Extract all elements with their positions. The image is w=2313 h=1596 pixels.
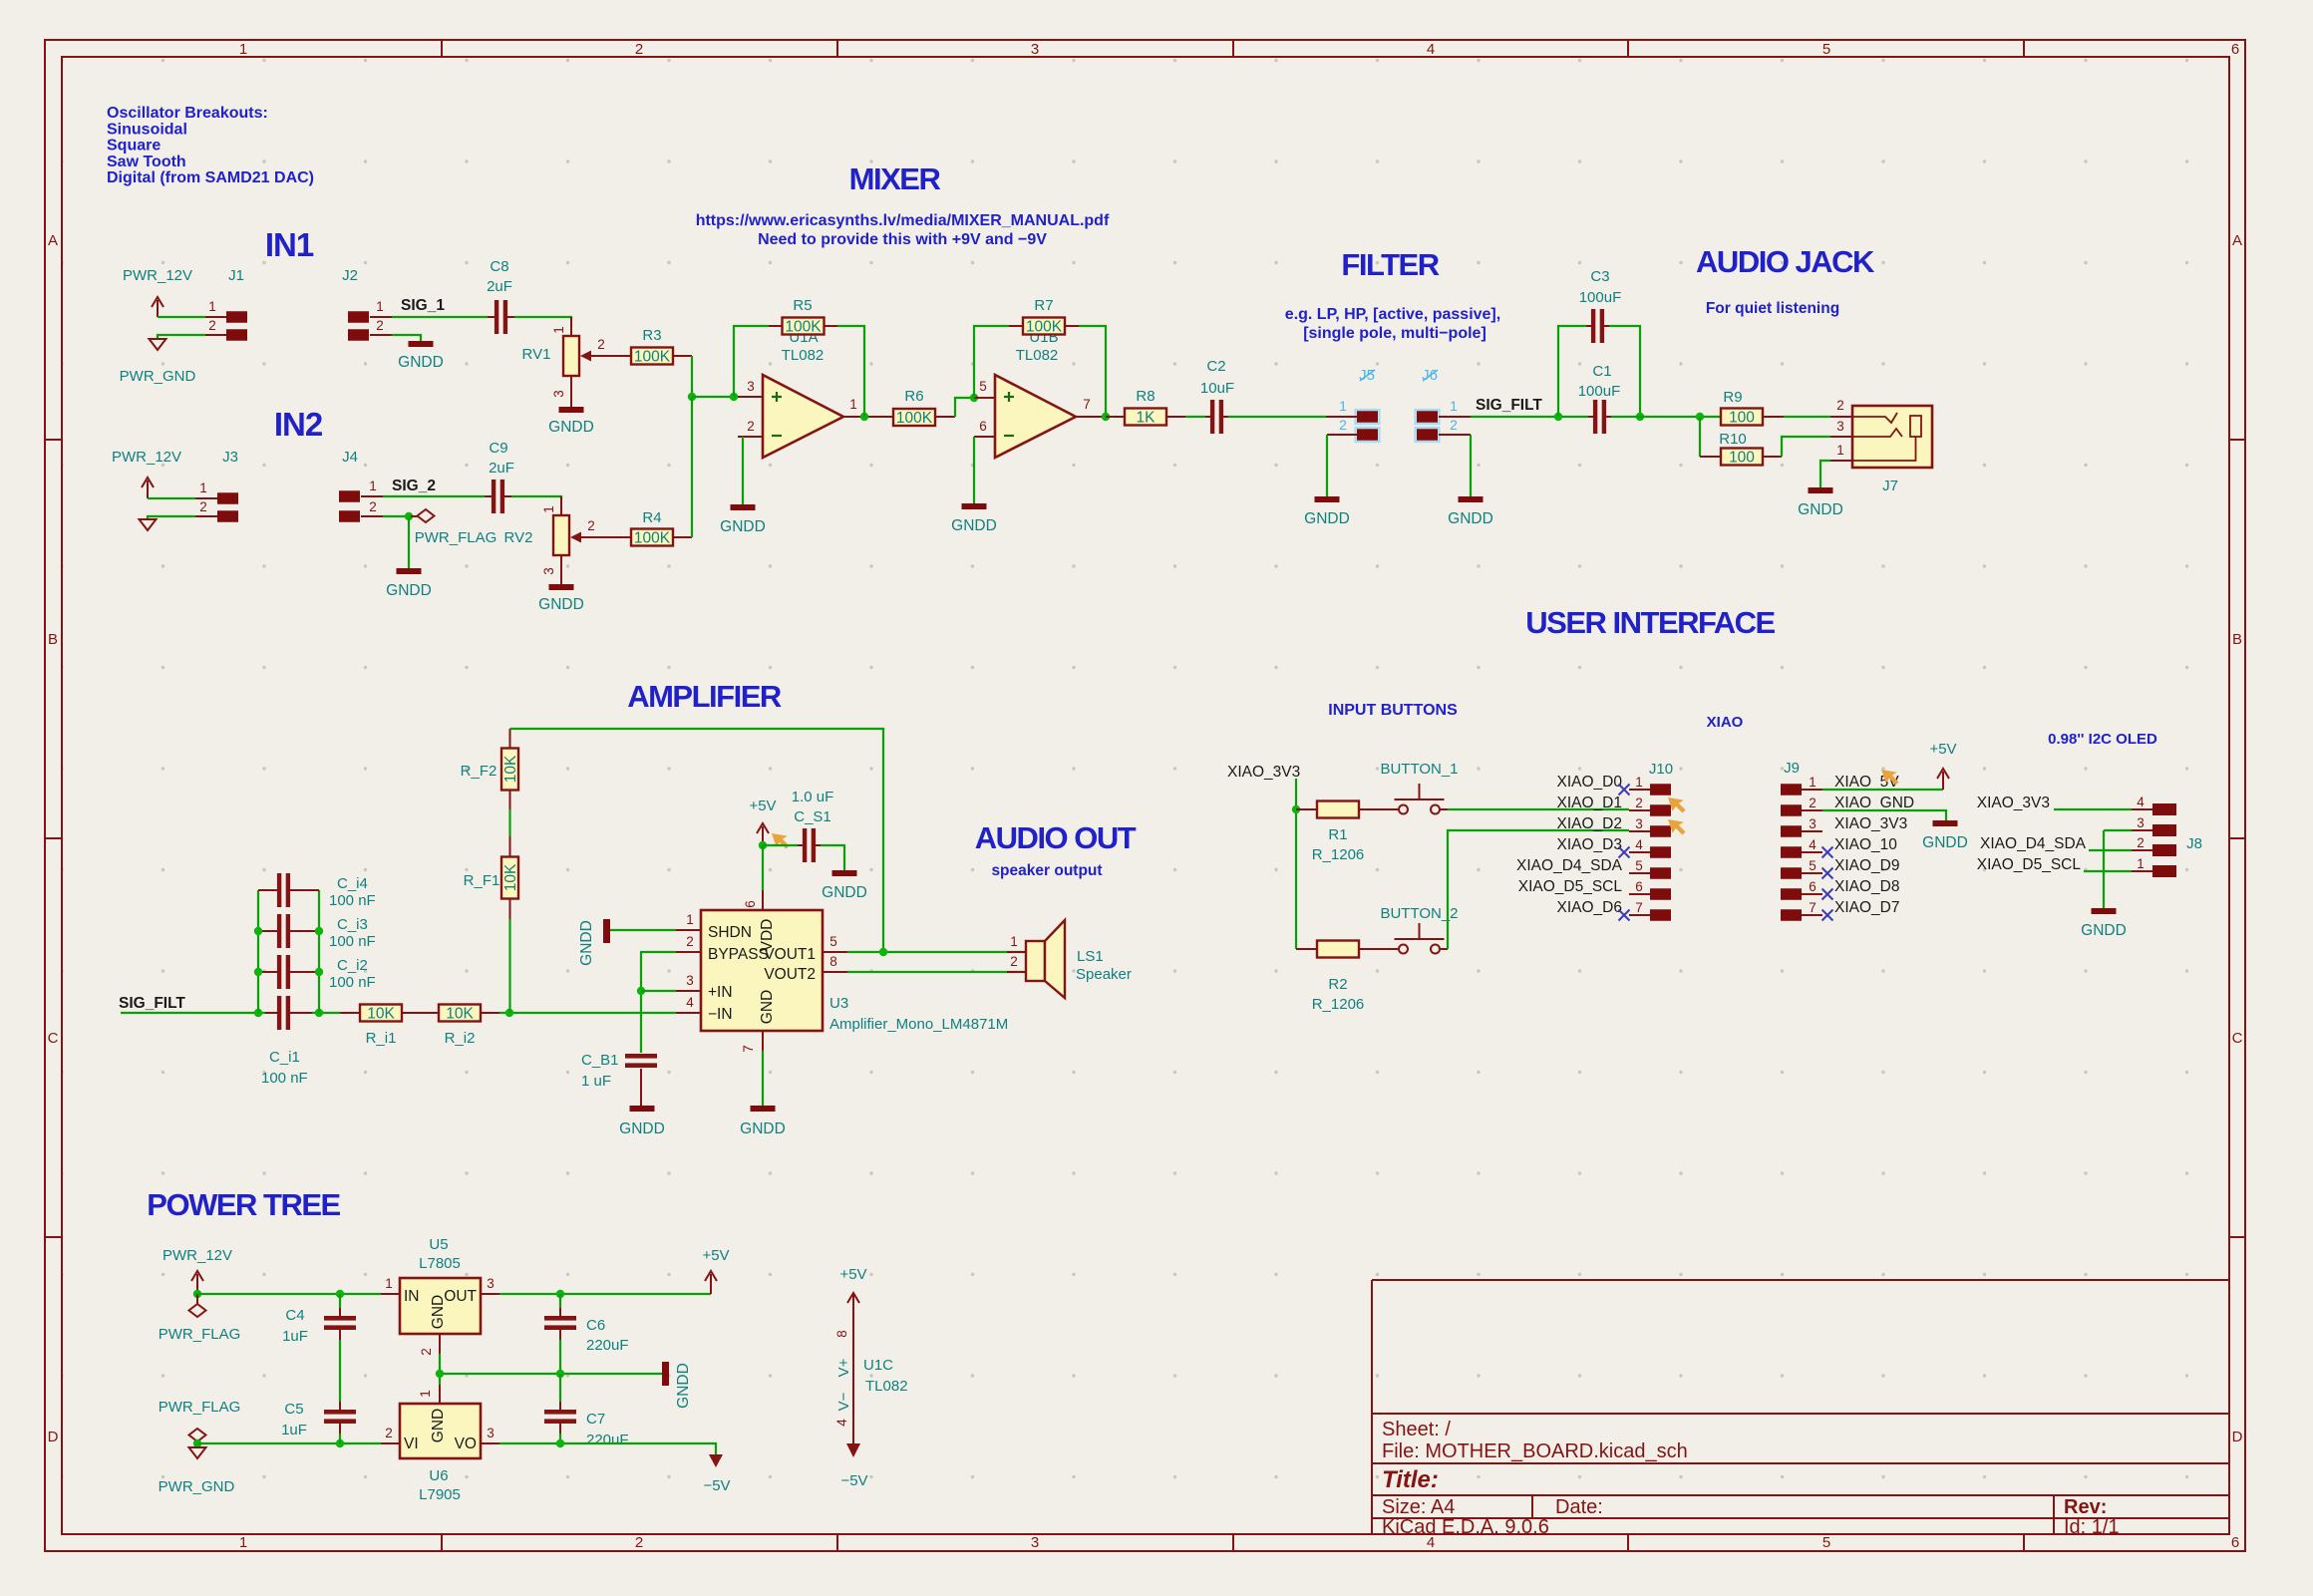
svg-text:100K: 100K [634, 530, 671, 547]
svg-text:1: 1 [385, 1276, 393, 1291]
svg-text:+5V: +5V [749, 798, 776, 814]
svg-text:XIAO_3V3: XIAO_3V3 [1227, 764, 1300, 781]
pin J9-1 XIAO_5V [1781, 784, 1802, 796]
wire J4 pin1 to C9 [383, 495, 485, 497]
wire U5 out to +5V [499, 1293, 711, 1295]
ground GNDD (J6) [1459, 496, 1484, 502]
svg-text:5: 5 [1822, 41, 1830, 58]
wire J3 pin2 to PWR_GND [148, 516, 195, 519]
no-connect X J9 [1822, 910, 1833, 921]
svg-text:2: 2 [369, 499, 377, 514]
svg-text:C: C [2232, 1030, 2243, 1047]
svg-text:2: 2 [1809, 796, 1817, 810]
wire VOUT2 to speaker [847, 971, 1026, 973]
power flag PWR_FLAG (IN2) [411, 515, 418, 517]
resistor R_i2 10K [439, 1005, 481, 1022]
svg-text:R_1206: R_1206 [1312, 996, 1365, 1013]
wire R6 to U1B + [955, 398, 974, 417]
svg-text:2: 2 [1836, 398, 1844, 413]
svg-text:Sheet: /: Sheet: / [1382, 1419, 1451, 1440]
svg-text:XIAO_D0: XIAO_D0 [1557, 774, 1623, 791]
svg-text:D: D [48, 1429, 59, 1445]
svg-text:100K: 100K [896, 410, 933, 427]
wire BUTTON_2 to J10 pin3 [1448, 830, 1629, 949]
svg-text:5: 5 [829, 934, 837, 949]
svg-text:GNDD: GNDD [386, 582, 432, 599]
svg-text:C_S1: C_S1 [794, 808, 831, 825]
svg-text:100uF: 100uF [1578, 383, 1621, 400]
svg-text:PWR_12V: PWR_12V [123, 267, 192, 284]
svg-text:J10: J10 [1649, 761, 1673, 778]
ground GNDD (SHDN) rotated [603, 919, 610, 943]
no-connect X J10-4 [1619, 847, 1630, 858]
svg-text:7: 7 [1809, 900, 1817, 915]
power -5V (U6) [709, 1454, 723, 1467]
svg-text:C6: C6 [586, 1317, 605, 1334]
svg-text:Date:: Date: [1555, 1496, 1603, 1518]
pin J10-6 XIAO_D5_SCL [1650, 888, 1671, 900]
svg-text:XIAO_D6: XIAO_D6 [1557, 899, 1622, 916]
svg-text:5: 5 [1635, 858, 1643, 873]
wire U3 GND to GNDD [762, 1051, 764, 1106]
svg-text:XIAO_D4_SDA: XIAO_D4_SDA [1516, 857, 1623, 874]
svg-text:100: 100 [1729, 450, 1755, 467]
svg-text:R_i2: R_i2 [445, 1030, 476, 1047]
svg-text:GNDD: GNDD [1922, 834, 1968, 851]
wire J4 pin2 to GNDD [383, 515, 409, 517]
svg-text:R7: R7 [1034, 297, 1053, 314]
svg-text:KiCad E.D.A. 9.0.6: KiCad E.D.A. 9.0.6 [1382, 1516, 1549, 1538]
power +5V (U5) [710, 1274, 712, 1294]
svg-text:2: 2 [587, 518, 595, 533]
svg-text:GNDD: GNDD [538, 596, 584, 613]
svg-text:10K: 10K [367, 1006, 395, 1023]
svg-text:GNDD: GNDD [1798, 501, 1843, 518]
svg-text:5: 5 [1822, 1534, 1830, 1551]
svg-text:PWR_FLAG: PWR_FLAG [159, 1399, 241, 1416]
svg-text:FILTER: FILTER [1341, 247, 1439, 282]
svg-text:1: 1 [1339, 398, 1347, 414]
svg-text:SIG_FILT: SIG_FILT [119, 995, 185, 1012]
svg-text:speaker output: speaker output [991, 862, 1102, 879]
svg-text:−IN: −IN [708, 1006, 733, 1023]
svg-text:C: C [48, 1030, 59, 1047]
wire input caps to R_i1 [312, 1012, 340, 1014]
ground GNDD (U1A) [731, 504, 756, 510]
ground GNDD (C_B1) [630, 1106, 655, 1112]
ground GNDD (J4) [397, 568, 422, 574]
svg-text:100 nF: 100 nF [261, 1070, 308, 1087]
ground GNDD (J8) [2092, 908, 2117, 914]
svg-text:TL082: TL082 [1016, 347, 1059, 364]
svg-text:1: 1 [1450, 398, 1458, 414]
svg-text:C_i1: C_i1 [269, 1049, 300, 1066]
svg-text:BUTTON_2: BUTTON_2 [1380, 905, 1458, 922]
svg-text:C_i3: C_i3 [337, 916, 368, 933]
pin J9-4 XIAO_10 [1781, 846, 1802, 858]
svg-text:7: 7 [1635, 900, 1643, 915]
svg-text:C8: C8 [490, 258, 508, 275]
svg-text:1: 1 [208, 299, 216, 314]
svg-text:PWR_GND: PWR_GND [159, 1478, 235, 1495]
svg-text:3: 3 [487, 1276, 495, 1291]
svg-text:VDD: VDD [759, 919, 776, 952]
svg-text:1: 1 [239, 1534, 247, 1551]
power +5V (J9) [1942, 772, 1944, 790]
svg-text:220uF: 220uF [586, 1432, 629, 1448]
svg-text:RV2: RV2 [504, 529, 533, 546]
resistor R_i1 10K [360, 1005, 402, 1022]
svg-text:USER INTERFACE: USER INTERFACE [1525, 605, 1775, 640]
resistor R2 R_1206 [1296, 948, 1317, 950]
svg-text:For quiet listening: For quiet listening [1706, 300, 1839, 317]
svg-text:GNDD: GNDD [822, 884, 867, 901]
pin J9-5 XIAO_D9 [1781, 867, 1802, 879]
wire R9 to J7 pin2 [1784, 416, 1830, 418]
svg-text:4: 4 [834, 1419, 849, 1427]
pin J8-1 [2152, 865, 2176, 877]
svg-text:2: 2 [376, 318, 384, 333]
wire U1B feedback left [974, 326, 1009, 398]
svg-text:1: 1 [2137, 856, 2145, 871]
svg-text:10K: 10K [446, 1006, 474, 1023]
svg-text:1: 1 [376, 299, 384, 314]
wire C4 to C5 [339, 1340, 341, 1402]
svg-text:R3: R3 [642, 327, 661, 344]
svg-text:XIAO_D3: XIAO_D3 [1557, 836, 1622, 853]
svg-text:GNDD: GNDD [951, 517, 997, 534]
svg-text:GNDD: GNDD [548, 419, 594, 436]
svg-text:5: 5 [979, 379, 987, 394]
svg-text:4: 4 [1635, 837, 1643, 852]
svg-text:Title:: Title: [1382, 1466, 1439, 1493]
cursor artifact orange [772, 833, 790, 849]
pin J8-4 [2152, 803, 2176, 815]
svg-text:1uF: 1uF [282, 1328, 308, 1345]
svg-text:2uF: 2uF [487, 278, 512, 295]
svg-text:2: 2 [1450, 417, 1458, 433]
wire summing node to U1A + [692, 396, 738, 398]
svg-text:7: 7 [1083, 397, 1091, 412]
switch BUTTON_2 [1399, 945, 1408, 954]
svg-text:PWR_FLAG: PWR_FLAG [415, 529, 497, 546]
svg-text:+5V: +5V [702, 1247, 729, 1264]
svg-text:Oscillator Breakouts:: Oscillator Breakouts: [107, 105, 268, 122]
svg-text:GNDD: GNDD [578, 920, 595, 966]
wire J2 pin2 to GNDD [392, 335, 421, 341]
svg-text:8: 8 [829, 954, 837, 969]
svg-text:1: 1 [1809, 775, 1817, 790]
svg-text:3: 3 [1031, 1534, 1039, 1551]
svg-text:VO: VO [455, 1436, 477, 1452]
svg-text:R2: R2 [1328, 976, 1347, 993]
wire R3 to summing node [691, 356, 693, 397]
svg-text:C4: C4 [285, 1307, 304, 1324]
svg-text:1: 1 [1010, 934, 1018, 949]
wire GND rail [197, 1442, 381, 1444]
wire U1A output [843, 416, 873, 418]
wire U1B output [1076, 416, 1106, 418]
svg-text:XIAO_3V3: XIAO_3V3 [1834, 815, 1907, 832]
power PWR_GND (IN2) [140, 519, 157, 530]
wire J6 pin2 to GNDD [1470, 435, 1472, 496]
svg-text:GNDD: GNDD [2081, 922, 2127, 939]
svg-text:A: A [48, 232, 58, 249]
wire J8-3 to GNDD [2104, 829, 2132, 831]
wire R4 to summing node [691, 397, 693, 537]
svg-text:1.0 uF: 1.0 uF [792, 789, 834, 805]
svg-text:IN: IN [404, 1288, 420, 1305]
svg-text:e.g. LP, HP, [active, passive]: e.g. LP, HP, [active, passive], [1285, 306, 1500, 323]
svg-text:R10: R10 [1719, 431, 1747, 448]
wire R10 to J7 pin3 [1782, 437, 1830, 457]
svg-text:GNDD: GNDD [675, 1363, 692, 1409]
pin U3-7 GND [762, 1031, 764, 1051]
pin J10-2 XIAO_D1 [1650, 804, 1671, 816]
svg-text:10K: 10K [502, 755, 519, 783]
svg-text:XIAO_D2: XIAO_D2 [1557, 815, 1622, 832]
svg-text:XIAO_D5_SCL: XIAO_D5_SCL [1518, 878, 1623, 895]
svg-text:AMPLIFIER: AMPLIFIER [627, 679, 782, 714]
wire J5 pin2 to GNDD [1326, 435, 1328, 496]
ground GNDD (C_S1) [832, 870, 857, 876]
svg-text:+IN: +IN [708, 984, 733, 1001]
svg-text:J8: J8 [2186, 835, 2202, 852]
svg-text:XIAO_D1: XIAO_D1 [1557, 795, 1622, 811]
svg-text:TL082: TL082 [782, 347, 825, 364]
svg-text:V+: V+ [835, 1358, 852, 1377]
power flag PWR_FLAG (12V) [196, 1294, 198, 1304]
ground GNDD (J9) [1933, 820, 1958, 826]
pin J10-5 XIAO_D4_SDA [1650, 867, 1671, 879]
wire U1B feedback right [1079, 326, 1106, 417]
svg-text:2: 2 [385, 1426, 393, 1440]
svg-text:B: B [48, 631, 58, 648]
ground GNDD (J7) [1809, 487, 1833, 493]
svg-text:XIAO_D7: XIAO_D7 [1834, 899, 1899, 916]
wire mid GND rail [440, 1373, 662, 1375]
svg-text:6: 6 [1635, 879, 1643, 894]
wire BYPASS to C_B1 [641, 952, 676, 1053]
svg-text:6: 6 [2231, 41, 2239, 58]
svg-text:2: 2 [199, 499, 207, 514]
svg-text:1: 1 [849, 397, 857, 412]
pin J10-1 XIAO_D0 [1650, 784, 1671, 796]
wire C8 to RV1 pin1 [514, 317, 571, 320]
svg-text:J7: J7 [1882, 478, 1898, 494]
svg-text:1: 1 [418, 1390, 433, 1398]
wire VOUT1 to speaker [847, 951, 1026, 953]
svg-text:R4: R4 [642, 509, 661, 526]
svg-text:3: 3 [686, 973, 694, 988]
svg-text:6: 6 [979, 419, 987, 434]
svg-text:1: 1 [1836, 443, 1844, 458]
wire J9 pin2 to GNDD [1822, 810, 1946, 820]
svg-text:SIG_FILT: SIG_FILT [1476, 397, 1542, 414]
svg-text:10uF: 10uF [1200, 380, 1234, 397]
svg-text:1: 1 [686, 912, 694, 927]
svg-text:GND: GND [430, 1409, 447, 1442]
pin U3-2 BYPASS [676, 951, 701, 953]
svg-text:Id: 1/1: Id: 1/1 [2064, 1516, 2120, 1538]
wire J1 pin2 to PWR_GND [158, 335, 205, 339]
svg-text:100K: 100K [785, 319, 822, 336]
pin J10-3 XIAO_D2 [1650, 825, 1671, 837]
node J4 pin2 junction [405, 512, 413, 520]
svg-text:AUDIO JACK: AUDIO JACK [1696, 244, 1875, 279]
svg-text:GNDD: GNDD [720, 518, 766, 535]
wire U1B pin6 to GNDD [973, 437, 975, 503]
switch BUTTON_1 [1399, 805, 1408, 814]
svg-text:C3: C3 [1590, 268, 1609, 285]
svg-text:10K: 10K [502, 863, 519, 891]
cursor artifact orange (J10 pads) [1668, 798, 1686, 813]
svg-text:2: 2 [208, 318, 216, 333]
svg-text:B: B [2232, 631, 2242, 648]
svg-text:XIAO_GND: XIAO_GND [1834, 795, 1914, 811]
svg-text:R_i1: R_i1 [366, 1030, 397, 1047]
svg-text:Rev:: Rev: [2064, 1496, 2107, 1518]
svg-text:1uF: 1uF [281, 1422, 307, 1438]
no-connect X J9 [1822, 889, 1833, 900]
svg-text:https://www.ericasynths.lv/med: https://www.ericasynths.lv/media/MIXER_M… [696, 212, 1110, 229]
svg-text:[single pole, multi−pole]: [single pole, multi−pole] [1303, 325, 1487, 342]
svg-text:4: 4 [1427, 41, 1435, 58]
svg-text:3: 3 [1809, 816, 1817, 831]
wire PWR_12V to J1 pin1 [158, 316, 205, 318]
svg-text:2: 2 [1635, 796, 1643, 810]
wire U1A feedback right [837, 326, 864, 417]
svg-text:Digital (from SAMD21 DAC): Digital (from SAMD21 DAC) [107, 169, 314, 186]
svg-text:C1: C1 [1592, 363, 1611, 380]
svg-text:3: 3 [541, 567, 556, 575]
no-connect X J10-7 [1619, 910, 1630, 921]
svg-text:MIXER: MIXER [849, 161, 941, 196]
pin U3-3 +IN [676, 990, 701, 992]
pin J10-7 XIAO_D6 [1650, 909, 1671, 921]
no-connect X J10-1 [1619, 785, 1630, 796]
svg-text:XIAO_D5_SCL: XIAO_D5_SCL [1977, 856, 2082, 873]
wire C2 to J5 [1228, 416, 1326, 418]
wire XIAO_3V3 down [1295, 779, 1297, 949]
svg-text:INPUT BUTTONS: INPUT BUTTONS [1328, 702, 1458, 719]
wire BUTTON_1 to J10 pin2 [1448, 808, 1629, 810]
svg-text:A: A [2232, 232, 2242, 249]
power PWR_GND (IN1) [150, 339, 166, 350]
pin U3-4 -IN [676, 1012, 701, 1014]
svg-text:GNDD: GNDD [1448, 510, 1493, 527]
svg-text:U3: U3 [829, 995, 848, 1012]
svg-text:J2: J2 [342, 267, 358, 284]
svg-text:C_i4: C_i4 [337, 875, 368, 892]
ground GNDD (RV1) [559, 407, 584, 413]
cursor artifact orange (J9) [1881, 770, 1899, 786]
svg-text:LS1: LS1 [1077, 948, 1104, 965]
svg-text:1K: 1K [1137, 410, 1156, 427]
svg-text:5: 5 [1809, 858, 1817, 873]
svg-text:R6: R6 [904, 388, 923, 405]
svg-text:OUT: OUT [444, 1288, 477, 1305]
svg-text:2: 2 [2137, 835, 2145, 850]
svg-text:R_F1: R_F1 [464, 872, 500, 889]
svg-text:D: D [2232, 1429, 2243, 1445]
svg-text:4: 4 [1809, 837, 1817, 852]
pin U3-8 VOUT2 [823, 971, 847, 973]
svg-text:SIG_2: SIG_2 [392, 478, 436, 494]
ground GNDD (U1B) [962, 503, 987, 509]
ground GNDD (RV2) [549, 584, 574, 590]
svg-text:U1C: U1C [863, 1357, 893, 1374]
wire J6 pin1 to C1 [1471, 416, 1588, 418]
power PWR_GND (power tree) [189, 1447, 206, 1458]
svg-text:J9: J9 [1784, 760, 1800, 777]
ground GNDD (J5) [1315, 496, 1340, 502]
svg-text:GNDD: GNDD [1304, 510, 1350, 527]
svg-text:TL082: TL082 [865, 1378, 908, 1395]
wire R_i2 to U3 -IN [499, 1012, 676, 1014]
ground GNDD (mid rail) rotated [662, 1362, 669, 1386]
svg-text:GND: GND [759, 990, 776, 1024]
svg-text:3: 3 [747, 379, 755, 394]
svg-text:XIAO_D4_SDA: XIAO_D4_SDA [1980, 835, 2087, 852]
wire R_F2 to R_F1 [508, 809, 510, 836]
svg-text:C_B1: C_B1 [581, 1052, 619, 1069]
wire cap rail right [318, 890, 320, 1013]
pin U3-5 VOUT1 [823, 951, 847, 953]
svg-text:1: 1 [239, 41, 247, 58]
op-amp U1B TL082 [995, 375, 1076, 458]
wire GNDD to SHDN [610, 929, 676, 931]
audio jack J7 [1852, 406, 1932, 468]
svg-text:1: 1 [1635, 775, 1643, 790]
svg-text:2: 2 [635, 41, 643, 58]
svg-text:R9: R9 [1723, 389, 1742, 406]
ground GNDD (U3 pin7) [751, 1106, 776, 1112]
wire U1A pin2 to GNDD [742, 437, 744, 504]
svg-text:U5: U5 [429, 1236, 448, 1253]
wire J7 pin1 to GNDD [1820, 461, 1830, 487]
svg-text:GND: GND [430, 1295, 447, 1329]
wire junction to GNDD (J4) [408, 516, 410, 568]
svg-text:1: 1 [369, 479, 377, 493]
wire U5 GND to mid rail [439, 1354, 441, 1385]
no-connect X J9 [1822, 868, 1833, 879]
svg-text:Need to provide this with +9V: Need to provide this with +9V and −9V [758, 231, 1047, 248]
svg-text:J1: J1 [228, 267, 244, 284]
svg-text:PWR_12V: PWR_12V [112, 449, 181, 466]
svg-text:2: 2 [597, 337, 605, 352]
wire J9 pin1 to +5V [1822, 789, 1943, 791]
svg-text:VI: VI [404, 1436, 419, 1452]
pin J8-3 [2152, 824, 2176, 836]
svg-text:R_1206: R_1206 [1312, 846, 1365, 863]
wire feedback top [510, 729, 884, 952]
svg-text:IN2: IN2 [274, 406, 323, 443]
svg-text:+5V: +5V [1929, 741, 1956, 758]
svg-text:−5V: −5V [840, 1472, 867, 1489]
svg-text:2: 2 [1339, 417, 1347, 433]
pin U3-1 SHDN [676, 929, 701, 931]
svg-text:6: 6 [743, 900, 758, 908]
svg-text:Saw Tooth: Saw Tooth [107, 154, 186, 170]
wire +IN junction [641, 990, 676, 992]
svg-text:File: MOTHER_BOARD.kicad_sch: File: MOTHER_BOARD.kicad_sch [1382, 1440, 1688, 1462]
svg-text:8: 8 [834, 1330, 849, 1338]
svg-text:3: 3 [1635, 816, 1643, 831]
title block [1372, 1280, 2229, 1534]
wire SIG_FILT to input caps [121, 1012, 265, 1014]
svg-text:100uF: 100uF [1579, 289, 1622, 306]
